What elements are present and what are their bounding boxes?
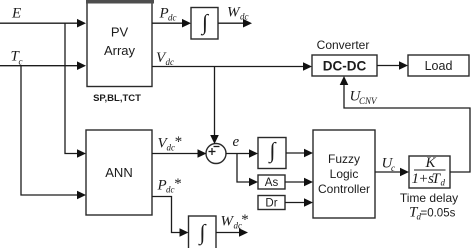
svg-text:W: W (221, 214, 235, 230)
svg-text:=0.05s: =0.05s (421, 208, 456, 220)
svg-text:Fuzzy: Fuzzy (328, 152, 360, 166)
svg-text:dc: dc (166, 57, 175, 67)
svg-text:Logic: Logic (330, 167, 359, 181)
svg-text:c: c (391, 163, 395, 173)
svg-text:K: K (425, 155, 437, 171)
svg-text:*: * (174, 134, 182, 150)
svg-text:dc: dc (240, 12, 249, 22)
svg-text:1 + sT: 1 + sT (412, 171, 442, 187)
svg-text:Array: Array (104, 43, 136, 58)
svg-text:dc: dc (168, 13, 177, 23)
svg-text:Dr: Dr (265, 198, 277, 210)
svg-text:Load: Load (425, 59, 453, 73)
svg-text:As: As (265, 177, 279, 189)
svg-text:E: E (11, 6, 21, 22)
svg-text:*: * (241, 212, 249, 228)
svg-text:ANN: ANN (105, 165, 132, 180)
svg-text:DC-DC: DC-DC (323, 59, 367, 74)
svg-text:Converter: Converter (317, 38, 370, 52)
svg-text:e: e (233, 134, 240, 150)
svg-text:d: d (441, 178, 446, 188)
svg-text:W: W (227, 5, 241, 21)
svg-text:Controller: Controller (318, 182, 370, 196)
svg-text:*: * (174, 176, 182, 192)
svg-text:SP,BL,TCT: SP,BL,TCT (93, 93, 141, 104)
svg-text:CNV: CNV (359, 96, 378, 106)
svg-text:c: c (19, 57, 23, 67)
svg-text:PV: PV (111, 25, 129, 40)
svg-text:Time delay: Time delay (400, 191, 458, 205)
